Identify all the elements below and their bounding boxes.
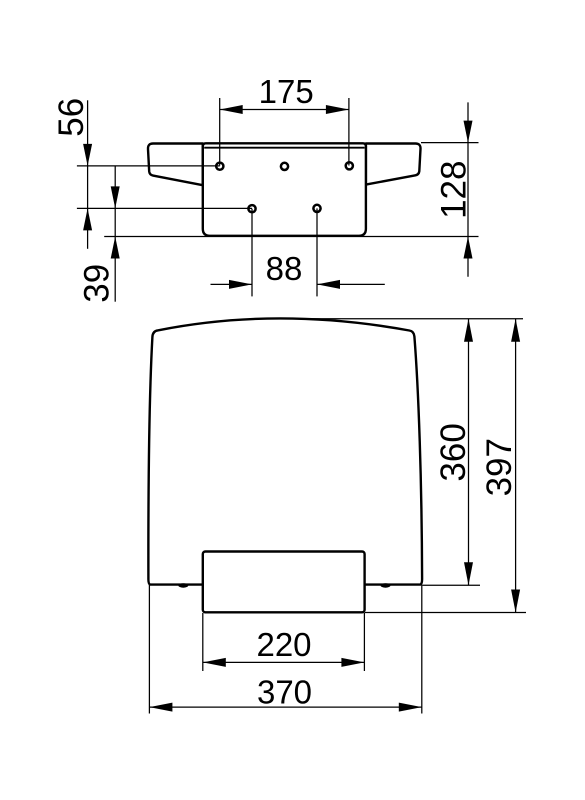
screw hole bottom-right bbox=[313, 205, 320, 212]
397 bottom reference extension line (rect bottom extended) bbox=[365, 612, 526, 614]
dimension 128: vertical line with outside arrows bbox=[467, 102, 469, 276]
mounting plate outline bbox=[203, 143, 366, 236]
dimension 56: upper arrow (points down to line A) bbox=[83, 144, 92, 166]
dimension 56: lower tail bbox=[87, 208, 89, 248]
screw hole bottom-left bbox=[248, 205, 255, 212]
dimension 220: right arrow bbox=[341, 658, 364, 667]
svg-text:56: 56 bbox=[52, 98, 91, 137]
svg-text:360: 360 bbox=[434, 423, 473, 481]
extension line C (plate bottom level, also 128 bottom reference) bbox=[104, 236, 478, 238]
dimension 39: lower tail bbox=[114, 237, 116, 302]
screw hole top-middle bbox=[281, 163, 288, 170]
left wing bbox=[148, 144, 203, 186]
svg-text:88: 88 bbox=[266, 250, 303, 287]
top reference extension line (360/397) bbox=[302, 318, 523, 320]
dimension 128: upper arrow (points down to top ref) bbox=[464, 121, 473, 143]
dimension 175: dimension line bbox=[220, 109, 349, 111]
svg-text:370: 370 bbox=[257, 674, 312, 711]
dimension 370: left arrow bbox=[149, 703, 172, 712]
dimension 128: lower arrow (points up to line C) bbox=[464, 237, 473, 259]
seat outline bbox=[148, 318, 422, 584]
svg-text:128: 128 bbox=[435, 160, 474, 218]
dimension 397: dimension line bbox=[515, 319, 517, 613]
dimension 39: upper arrow (points down to line B) bbox=[111, 186, 120, 208]
dimension 220: left arrow bbox=[203, 658, 226, 667]
dimension 175: left arrow bbox=[220, 105, 243, 114]
dimension 360: dimension line bbox=[468, 319, 470, 585]
svg-text:397: 397 bbox=[480, 438, 519, 496]
dimension 397: bottom arrow bbox=[511, 590, 520, 613]
folded seat bracket rectangle bbox=[203, 552, 365, 613]
dimension 220: extension lines bbox=[202, 613, 204, 671]
dimension 175: extension lines bbox=[219, 98, 221, 166]
right wing bbox=[366, 144, 421, 185]
360 bottom reference extension line bbox=[423, 584, 481, 586]
extension line A (upper hole row level) bbox=[77, 165, 220, 167]
dimension 370: dimension line bbox=[149, 706, 421, 708]
svg-text:220: 220 bbox=[256, 626, 311, 663]
right foot bumper bbox=[381, 583, 391, 587]
dimension 56: vertical line with outside arrows bbox=[87, 100, 89, 208]
dimension 39: lower arrow (points up to line C) bbox=[111, 237, 120, 259]
extension line top of wing (128 top reference) bbox=[421, 142, 479, 144]
dimension 88: extension lines from lower holes bbox=[251, 209, 253, 297]
dimension 370: extension lines bbox=[148, 585, 150, 714]
dimension 220: dimension line bbox=[203, 661, 365, 663]
dimension 56: lower arrow (points up to line B) bbox=[83, 208, 92, 230]
dimension 88: left tail and arrow (points right) bbox=[211, 283, 253, 285]
plate lip line bbox=[204, 147, 364, 149]
screw hole top-right bbox=[346, 162, 353, 169]
dimension 397: top arrow bbox=[511, 319, 520, 342]
dimension 360: bottom arrow bbox=[464, 562, 473, 585]
dimension 39: vertical line with outside arrows bbox=[114, 166, 116, 237]
svg-text:39: 39 bbox=[78, 264, 117, 303]
dimension 175: right arrow bbox=[326, 105, 349, 114]
extension line B (lower hole row level) bbox=[77, 207, 252, 209]
dimension 360: top arrow bbox=[464, 319, 473, 342]
left foot bumper bbox=[178, 583, 188, 587]
dimension 370: right arrow bbox=[399, 703, 422, 712]
dimension 88: right tail and arrow (points left) bbox=[317, 283, 385, 285]
svg-text:175: 175 bbox=[259, 73, 314, 110]
screw hole top-left bbox=[216, 163, 223, 170]
